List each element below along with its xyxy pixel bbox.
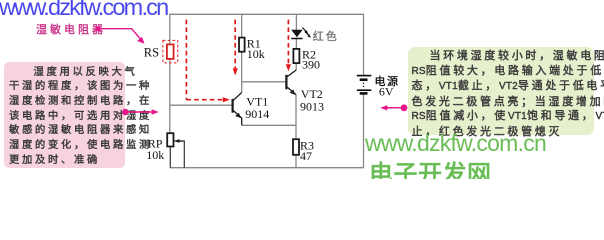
svg-text:390: 390	[302, 58, 320, 72]
left pink note box	[4, 62, 125, 168]
wire left branch RS to RP	[169, 59, 171, 133]
transistor VT1	[233, 93, 242, 126]
wire RP bottom	[169, 147, 171, 168]
svg-text:RS: RS	[144, 45, 159, 59]
svg-text:9013: 9013	[300, 100, 324, 114]
wire node to VT2 base	[242, 81, 286, 83]
callout arrow from pink box	[122, 109, 159, 115]
wire VT1 emitter rail	[242, 124, 296, 126]
current path dashed red through LED/R2	[286, 20, 291, 72]
wire R1 bottom to VT1 collector	[241, 52, 243, 93]
svg-text:10k: 10k	[247, 47, 265, 61]
watermark site name bottom-right	[369, 154, 492, 189]
resistor R3	[293, 139, 299, 155]
wire right branch lower	[363, 94, 365, 169]
wire LED to R2	[295, 38, 297, 49]
svg-text:47: 47	[300, 149, 312, 163]
wire LED branch top	[295, 14, 297, 30]
wire R1 branch top	[241, 14, 243, 37]
watermark url top-left	[0, 0, 167, 21]
watermark url bottom-right	[365, 130, 546, 157]
callout arrow from yellow box to battery	[380, 104, 407, 111]
potentiometer RP	[167, 133, 183, 146]
wire VT2 emitter to R3	[295, 95, 297, 140]
wire R3 to bottom rail	[295, 155, 297, 168]
wire left branch upper	[169, 14, 171, 45]
svg-text:6V: 6V	[379, 84, 394, 98]
resistor R2	[293, 49, 299, 63]
svg-text:9014: 9014	[245, 107, 269, 121]
wire RP wiper to bottom rail	[175, 141, 185, 168]
svg-text:红色: 红色	[313, 29, 339, 43]
wire VT1 base	[170, 104, 232, 106]
svg-text:10k: 10k	[146, 148, 164, 162]
wire right branch upper	[363, 14, 365, 75]
resistor R1	[239, 38, 245, 52]
battery GB 6V	[357, 76, 372, 94]
wire top rail	[170, 13, 364, 15]
wire bottom rail	[170, 167, 364, 169]
current path dashed red through R1	[233, 20, 238, 76]
LED VD (red)	[291, 28, 311, 39]
label 湿敏电阻器 (humidity-sensitive resistor callout text)	[36, 21, 106, 37]
resistor RS (humidity sensor, red)	[167, 44, 174, 59]
wire R2 to VT2 collector	[295, 63, 297, 70]
current path dashed red into VT1 base	[186, 20, 229, 103]
right yellow note box	[408, 47, 594, 135]
transistor VT2	[286, 70, 296, 95]
highlight dashed box around RS	[163, 40, 178, 62]
callout arrow from 湿敏电阻器 to RS	[95, 26, 144, 44]
